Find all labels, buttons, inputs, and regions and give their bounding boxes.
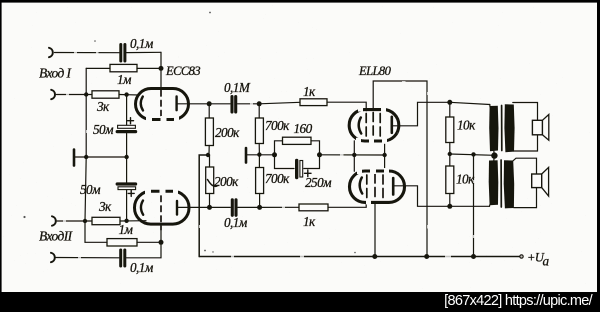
speaker Гр2 horn [542, 167, 549, 196]
wire B+ feed down [473, 154, 475, 256]
svg-text:700к: 700к [265, 118, 290, 133]
transformer T2 secondary winding [504, 160, 515, 208]
envelope dash gaps (scan style) [145, 107, 389, 205]
svg-text:10к: 10к [456, 172, 475, 187]
node network left [272, 152, 277, 157]
node cath y157 [124, 155, 128, 159]
resistor R10 1к upper [259, 102, 300, 104]
wire input2b to C6 [56, 257, 119, 259]
svg-text:0,1м: 0,1м [224, 215, 248, 230]
tube V1b ECC83 lower triode envelope [135, 191, 190, 224]
svg-text:700к: 700к [265, 171, 290, 186]
wire bus to R4 [85, 241, 107, 243]
wire link tubes right [384, 141, 386, 170]
capacitor C7 250м electrolytic [275, 155, 295, 169]
svg-text:50м: 50м [80, 182, 101, 197]
wire C6 up to grid2 node [127, 242, 162, 257]
svg-text:1м: 1м [117, 72, 132, 87]
svg-text:Вход I: Вход I [39, 66, 71, 81]
wire grid2 to tube [160, 231, 162, 242]
transformer T2 core [500, 160, 502, 207]
grid2 V2a [372, 113, 374, 138]
resistor R3 3к lower [92, 217, 120, 224]
wire input2a [57, 220, 92, 222]
node R7-R8 [257, 152, 261, 156]
node anode2-R6 [207, 205, 212, 210]
node anode1-R5 [207, 101, 212, 106]
wire C1 to grid node [127, 51, 161, 53]
svg-text:50м: 50м [93, 122, 114, 137]
grid3 V2a [379, 114, 381, 138]
svg-text:1к: 1к [303, 214, 316, 229]
grid2 V2b [374, 174, 376, 199]
scan specks [23, 12, 398, 254]
capacitor C6 0.1м plates [119, 250, 122, 266]
grid V1b dashed [160, 196, 162, 230]
node bus-input1 [84, 92, 88, 96]
transformer T1 primary winding [489, 106, 498, 151]
cathode V1b [141, 201, 143, 215]
T2 secondary top lead [513, 158, 537, 174]
node network right [317, 152, 322, 157]
resistor R11 1к lower [260, 206, 299, 208]
input terminal Вход II upper [52, 216, 56, 225]
T1 secondary top lead [513, 103, 538, 121]
capacitor C4 0.1м coupling lower [210, 206, 231, 208]
tube V1a ECC83 upper triode envelope [136, 89, 189, 120]
speaker Гр1 box [532, 120, 542, 135]
tube V2a ELL80 upper envelope [349, 110, 399, 141]
svg-text:0,1М: 0,1М [224, 80, 251, 95]
node rail screen1 [424, 254, 429, 259]
cathode V2a [359, 118, 362, 134]
resistor R1 1м [86, 67, 110, 69]
capacitor C3 0.1м coupling upper [209, 103, 230, 105]
resistor R8 700к lower [258, 155, 260, 168]
wire input1b [57, 94, 93, 96]
grid1 V2a [365, 114, 367, 138]
ground symbol bar [73, 150, 76, 166]
svg-text:0,1м: 0,1м [130, 260, 154, 275]
node bus y157 [84, 155, 88, 159]
wire anode1 out [177, 103, 210, 105]
svg-text:0,1м: 0,1м [130, 36, 154, 51]
anode V1b [176, 201, 178, 215]
resistor R6 200к lower [209, 155, 211, 167]
wire R7R8 node to cathode network [259, 154, 274, 156]
input terminal Вход II lower [51, 253, 55, 262]
wire anode2 out [177, 206, 210, 208]
node 10k2 bottom [447, 204, 452, 209]
wire mid line to transformer center [450, 154, 495, 155]
svg-text:160: 160 [294, 121, 313, 136]
anode V2a [390, 117, 393, 133]
svg-text:3к: 3к [96, 99, 110, 114]
cathode V1a [141, 97, 143, 111]
T1 primary bottom to joint [493, 151, 496, 156]
svg-text:3к: 3к [98, 199, 112, 214]
node R5-R6 [206, 153, 210, 157]
wire network to ELL80 cathodes [320, 154, 386, 156]
grid V1a dashed [160, 91, 162, 117]
grid3 V2b [382, 175, 384, 199]
anode V2b [392, 178, 395, 195]
resistor R13 10к lower [449, 154, 451, 166]
speaker Гр1 horn [542, 115, 548, 141]
svg-text:ELL80: ELL80 [358, 64, 392, 78]
anode V1a [175, 97, 177, 111]
power rail +Ua [199, 256, 520, 258]
svg-text:250м: 250м [305, 175, 332, 190]
T1 secondary bottom lead [514, 135, 538, 151]
cathode V2b [360, 178, 363, 194]
node grid2 junction [159, 240, 164, 245]
T2 primary bottom lead [489, 205, 491, 207]
input terminal Вход I upper [49, 48, 53, 57]
T1 primary top lead [489, 105, 491, 108]
speaker Гр2 box [532, 174, 542, 188]
R6 wiper tick [208, 180, 218, 187]
node cathode2 [124, 219, 128, 223]
wire bar2 to node [246, 154, 259, 156]
transformer T1 secondary winding [504, 104, 514, 152]
wire anode V2b to transformer [393, 186, 489, 207]
ground bus vertical left [85, 68, 86, 242]
input terminal Вход I lower [51, 90, 55, 99]
svg-text:1м: 1м [119, 222, 134, 237]
svg-text:10к: 10к [457, 118, 476, 133]
svg-text:[867x422] https://upic.me/: [867x422] https://upic.me/ [444, 293, 594, 309]
node cathode link1 [352, 153, 356, 157]
node cathode link2 [382, 153, 386, 157]
resistor R9 160 [275, 141, 283, 155]
grid1 V2b [366, 175, 368, 199]
svg-text:200к: 200к [215, 125, 240, 140]
wire feed from rail [199, 155, 208, 257]
screen feed lower: tube bottom to rail [374, 202, 376, 256]
node rail B+ feed [471, 254, 476, 259]
svg-text:а: а [543, 254, 550, 269]
svg-text:1к: 1к [303, 84, 316, 99]
wire link tubes left [353, 141, 355, 172]
transformer T1 core [501, 106, 503, 151]
resistor R7 700к [258, 104, 260, 118]
node C4-R8 [257, 205, 262, 210]
transformer T2 primary winding [489, 160, 499, 205]
node 10k1 top [447, 100, 452, 105]
wire grid node down to tube V1a [160, 52, 162, 90]
resistor R5 200к [208, 104, 210, 118]
node C3-R7 [257, 101, 262, 106]
node rail screen2 [372, 254, 377, 259]
capacitor C1 0.1м plates [119, 45, 122, 62]
resistor R4 1м lower [107, 239, 137, 246]
wire to T1 primary top [450, 102, 490, 104]
wire cathode down to C2 [126, 95, 128, 125]
svg-text:200к: 200к [214, 174, 239, 189]
node transformer joint [491, 152, 497, 158]
capacitor C2 50м electrolytic [118, 125, 136, 128]
ground symbol bar 2 [245, 148, 248, 163]
wire ground line y157 [74, 156, 127, 158]
screen feed upper: tube top to top rail [373, 81, 427, 257]
resistor R2 3к [92, 91, 119, 98]
svg-text:ЕСС83: ЕСС83 [165, 64, 200, 78]
node bus-input2 [83, 219, 87, 223]
wire scan nicks [63, 46, 475, 259]
node cathode1 [124, 92, 128, 96]
node B+ feed [471, 152, 475, 156]
terminal +Ua open dot [520, 255, 523, 258]
node grid1 junction with R1 [159, 66, 164, 71]
watermark bar [0, 292, 600, 312]
frame top [0, 0, 600, 3]
frame right [597, 0, 600, 312]
tube V2b ELL80 lower envelope [350, 171, 405, 202]
svg-text:ВходII: ВходII [39, 229, 73, 244]
T2 primary top to joint [493, 156, 496, 161]
node 10k mid left [448, 152, 452, 156]
T2 secondary bottom lead [514, 188, 537, 208]
capacitor C5 50м lower electrolytic [126, 157, 128, 183]
wire anode V2a to transformer [392, 102, 450, 126]
wire input1 to C1 [55, 52, 120, 54]
resistor R12 10к [449, 102, 451, 117]
frame left [0, 0, 2, 312]
